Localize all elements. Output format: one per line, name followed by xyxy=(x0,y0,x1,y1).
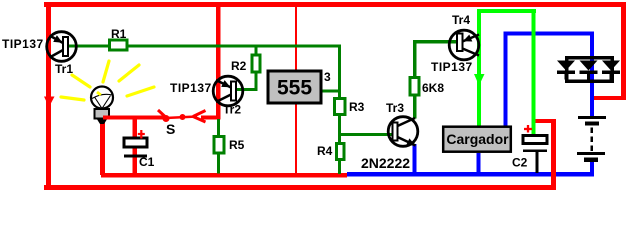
wire bright green Tr4 rail vertical xyxy=(477,9,481,126)
svg-text:Tr1: Tr1 xyxy=(55,62,73,76)
wire red horizontal to solar node xyxy=(592,96,626,100)
transistor Q Tr1 TIP137 xyxy=(47,32,77,62)
wire blue Tr3 emitter stub xyxy=(413,144,417,173)
switch S contact dot 2 xyxy=(180,114,186,120)
solar panel frame xyxy=(565,56,614,83)
svg-text:2N2222: 2N2222 xyxy=(361,155,410,171)
wire green to Tr4 base xyxy=(413,40,457,44)
wire bright green right vertical to C2 xyxy=(532,9,536,136)
wire red switch left segment xyxy=(108,116,166,120)
lamp base xyxy=(95,109,110,119)
wire green R4 bottom stub xyxy=(338,161,341,174)
charger block Cargador xyxy=(443,127,511,152)
wire red C1 stem xyxy=(133,118,138,175)
svg-text:R1: R1 xyxy=(111,27,127,41)
wire green vertical down to R3 xyxy=(338,47,341,97)
wire green main horizontal R1 to R3 column xyxy=(128,45,341,48)
svg-text:TIP137: TIP137 xyxy=(2,37,44,51)
wire red switch right segment xyxy=(201,116,220,120)
wire red ground bus left xyxy=(101,173,347,178)
wire red C2 vertical to bottom rail xyxy=(551,119,556,190)
resistor R1 xyxy=(110,40,128,50)
svg-text:R5: R5 xyxy=(229,138,245,152)
wire green Tr3 collector stub xyxy=(413,97,417,119)
wire red 555 supply line xyxy=(295,7,297,174)
svg-text:6K8: 6K8 xyxy=(422,81,444,95)
svg-text:R2: R2 xyxy=(231,59,247,73)
wire green R2 top stub xyxy=(255,47,258,54)
switch S blade xyxy=(166,117,198,119)
wire blue left vertical to charger xyxy=(504,32,508,126)
switch S contact dot 1 xyxy=(163,115,170,122)
wire red C2 horizontal xyxy=(535,119,556,123)
wire green R2 bottom to Tr2 base xyxy=(255,74,258,91)
wire red left supply rail xyxy=(46,2,51,190)
transistor Q Tr4 TIP137 xyxy=(449,30,479,60)
lamp bulb xyxy=(91,87,113,109)
resistor R4 xyxy=(337,144,345,160)
wire bright green top horizontal xyxy=(477,9,536,13)
svg-text:C1: C1 xyxy=(139,155,155,169)
svg-text:Tr3: Tr3 xyxy=(386,101,404,115)
wire green R5 top stub xyxy=(217,119,220,135)
lamp rays xyxy=(61,61,154,100)
svg-text:3: 3 xyxy=(324,70,331,84)
wire red bottom rail xyxy=(44,185,555,190)
solar diode D2 xyxy=(580,61,598,80)
wire red Tr2 rail xyxy=(216,2,221,120)
svg-text:R4: R4 xyxy=(317,144,333,158)
svg-text:Tr4: Tr4 xyxy=(452,13,470,27)
resistor 6K8 xyxy=(410,78,419,96)
svg-text:S: S xyxy=(166,121,175,137)
wire blue top horizontal xyxy=(504,32,595,36)
battery B1 xyxy=(577,116,606,162)
lamp filament xyxy=(92,94,113,98)
svg-text:C2: C2 xyxy=(512,156,528,170)
resistor R5 xyxy=(214,137,224,154)
wire green 555 pin3 xyxy=(322,90,341,93)
wire green Tr1 base to R1 xyxy=(68,45,108,48)
transistor Q Tr3 2N2222 xyxy=(388,117,418,147)
wire green 6K8 top stub xyxy=(413,40,417,76)
wire green R5 bottom stub xyxy=(217,155,220,174)
resistor R2 xyxy=(252,55,260,72)
svg-text:Tr2: Tr2 xyxy=(223,103,241,117)
solar diode D1 xyxy=(557,61,575,80)
svg-text:TIP137: TIP137 xyxy=(170,81,212,95)
resistor R3 xyxy=(335,99,346,115)
wire red lamp to switch joint xyxy=(103,116,113,120)
svg-text:Cargador: Cargador xyxy=(446,131,509,147)
wire red right border vertical xyxy=(621,2,626,100)
wire red top supply rail xyxy=(44,2,626,7)
svg-text:TIP137: TIP137 xyxy=(431,60,473,74)
wire blue solar-battery vertical xyxy=(590,33,594,116)
switch S blade tick xyxy=(158,110,165,117)
capacitor C2 xyxy=(523,136,547,144)
solar diode D3 xyxy=(602,61,620,80)
current arrow on left rail xyxy=(44,97,55,108)
lamp glint xyxy=(97,92,101,95)
wire green R3 to R4 vertical xyxy=(338,116,341,142)
lamp base tip xyxy=(97,119,108,125)
switch S arrow xyxy=(193,111,206,117)
transistor Q Tr2 TIP137 xyxy=(213,76,243,106)
IC 555 xyxy=(268,71,321,103)
wire red lamp stub xyxy=(100,122,105,175)
current arrow on bright green rail xyxy=(474,74,485,86)
wire green tee to Tr3 base xyxy=(338,133,393,136)
svg-text:R3: R3 xyxy=(349,100,365,114)
wire blue bottom bus xyxy=(347,172,594,177)
wire blue battery bottom stub xyxy=(590,162,594,174)
wire blue charger bottom stub xyxy=(477,153,481,173)
svg-text:555: 555 xyxy=(277,77,312,100)
capacitor C1 xyxy=(124,138,147,147)
